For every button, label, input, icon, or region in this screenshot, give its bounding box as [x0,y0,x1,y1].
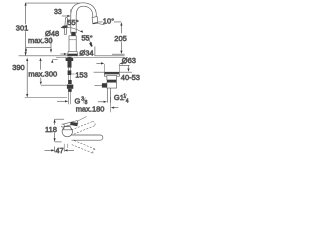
svg-text:40-53: 40-53 [121,73,140,82]
pop-up rod [94,47,96,56]
leader line above handle [77,116,86,121]
deck underside line [56,56,125,58]
top view mount stubs [64,144,68,152]
top view body [62,126,72,136]
basin surface line [94,71,132,73]
dimension d48 leader [50,37,52,51]
label 153 leader [72,73,75,75]
dimension 205 vertical line [112,22,125,54]
hose end stub [68,92,70,104]
dimension d63 [96,62,126,72]
svg-text:Ø34: Ø34 [79,48,93,57]
mounting nut [66,58,74,61]
top view spout dashed lower [72,141,95,154]
dimension 301 vertical line [25,2,84,55]
dimension max300 line [40,64,42,85]
drain lower body [107,82,117,88]
svg-text:47: 47 [55,146,63,155]
hose lower block [68,80,72,84]
bottom reference line 390 [25,97,67,99]
base plate [68,51,78,54]
hose segment 1 [68,68,70,71]
dimension hose-to-drain right arrows [98,97,119,112]
hose nut block [68,70,72,75]
svg-text:55°: 55° [81,34,92,43]
deck line [19,55,125,57]
svg-text:55°: 55° [67,18,78,27]
G38 hose end nut [67,85,73,89]
svg-text:max.300: max.300 [28,69,57,78]
svg-text:max.30: max.30 [28,36,53,45]
dimension d34 arrows [60,53,83,55]
dimension hose-to-drain left arrow [57,100,68,102]
aerator tip [92,17,98,24]
drain tailpipe [107,88,110,103]
svg-text:205: 205 [114,34,127,43]
hose top reference line [41,84,67,86]
top view spout solid [72,135,103,140]
pop-up lever knob [102,83,107,87]
threaded shank [68,57,72,68]
below-deck up arrows [26,58,28,61]
top view spout dashed upper [72,121,96,134]
55 degree arc upper [61,26,84,32]
dimension 390 line [26,61,28,97]
bottom view: dimension 118 line [54,119,65,152]
svg-text:Ø63: Ø63 [122,56,136,65]
10 degree spray line [97,23,104,24]
spout tube [71,3,97,33]
dimension 33 [62,10,71,21]
handle lever [63,17,76,35]
hose segment 2 [68,75,70,80]
svg-text:max.180: max.180 [76,104,105,113]
dimension max30 line [25,48,51,53]
svg-text:4: 4 [126,98,129,104]
dimension 47 [45,149,75,151]
svg-text:10°: 10° [103,17,114,26]
dimension 40-53 [119,65,129,71]
drain flange [104,72,119,74]
top view handle lever [61,121,78,128]
svg-text:33: 33 [54,9,62,16]
svg-text:153: 153 [75,70,88,79]
svg-text:390: 390 [12,63,25,72]
55 degree arc lower [84,35,91,46]
drain upper body [107,76,117,80]
svg-text:301: 301 [16,23,29,32]
pop-up lever line [95,84,102,86]
body column [69,36,76,52]
drain dark band [107,80,117,82]
10 degree reference line [98,21,122,23]
svg-text:118: 118 [45,125,57,134]
